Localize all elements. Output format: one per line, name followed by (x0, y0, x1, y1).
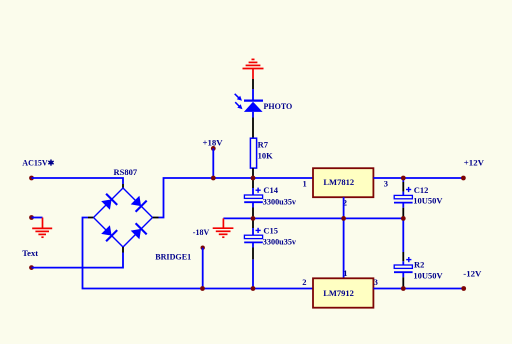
wire (+18V rail to LM7812 pin1) (159, 178, 314, 218)
junction (R2 on -rail) (401, 286, 406, 291)
pin (R2 bottom) (402, 277, 404, 288)
junction (C14/C15 on gnd rail) (251, 216, 256, 221)
svg-text:Text: Text (22, 248, 38, 258)
junction (reg interconnect on gnd rail) (341, 216, 346, 221)
diode D3 (left-bottom) (101, 225, 117, 241)
svg-text:C15: C15 (263, 225, 278, 235)
svg-text:LM7912: LM7912 (323, 288, 354, 298)
svg-text:BRIDGE1: BRIDGE1 (155, 252, 191, 261)
svg-text:R2: R2 (414, 259, 424, 269)
ground rail (middle) (223, 217, 403, 219)
ground (left, red) (32, 218, 52, 238)
pin (C12 bottom) (402, 208, 404, 219)
svg-text:10U50V: 10U50V (413, 195, 443, 205)
wire (C12 to R2) (402, 218, 404, 252)
wire (LM7912 pin3 to -12V) (373, 288, 463, 290)
svg-text:3: 3 (384, 178, 388, 188)
capacitor R2 10U50V (394, 257, 444, 280)
pin (C15 bottom) (252, 248, 254, 260)
svg-text:10U50V: 10U50V (413, 270, 443, 280)
svg-text:-12V: -12V (463, 269, 482, 279)
pin (bridge top) (122, 184, 124, 189)
pin (bridge right) (153, 217, 159, 219)
power symbol (red earth, pointing up) (243, 59, 264, 79)
wire (LM7812 pin2 down to LM7912 pin1) (343, 197, 345, 278)
svg-text:R7: R7 (258, 139, 269, 149)
svg-text:3: 3 (374, 277, 378, 287)
pin (R2 top) (402, 252, 404, 261)
port -12V (461, 286, 466, 291)
capacitor C12 10U50V (394, 185, 443, 208)
pin (C14 top) (252, 178, 254, 188)
junction (C12 on +rail) (401, 176, 406, 181)
svg-text:+12V: +12V (464, 158, 485, 168)
junction (R7/C14 on +rail) (251, 176, 256, 181)
wire (LM7812 pin3 to +12V) (373, 177, 463, 179)
pin (C14 bottom) (252, 208, 254, 219)
resistor R7 10K (250, 138, 273, 168)
svg-text:LM7812: LM7812 (323, 177, 354, 187)
junction (C12/R2 on gnd rail) (401, 216, 406, 221)
wire (252, 89, 254, 100)
pin (bridge bottom) (122, 247, 124, 253)
svg-text:1: 1 (343, 268, 347, 278)
wire (C12 top stub) (402, 178, 404, 182)
photodiode PHOTO (235, 94, 293, 112)
diode D4 (bottom-right) (131, 223, 147, 239)
pin (R7 bottom) (252, 168, 254, 178)
port Text (29, 265, 34, 270)
wire (Text to bridge bottom) (32, 253, 124, 268)
capacitor C14 3300u35v (244, 185, 297, 208)
pin (C15 top) (252, 218, 254, 228)
diode D1 (left-top) (101, 194, 117, 210)
wire AC input (32, 178, 124, 184)
port -18V (201, 246, 205, 250)
pin (C12 top) (402, 182, 404, 192)
svg-text:PHOTO: PHOTO (264, 102, 293, 111)
wire (+18V drop) (212, 148, 214, 178)
junction (-18V on -rail) (200, 286, 205, 291)
wire (-18V run: bridge left to LM7912 pin2) (83, 218, 314, 289)
capacitor C15 3300u35v (244, 225, 297, 247)
wire (to left ground) (32, 217, 43, 219)
wire (C15 to -rail) (252, 259, 254, 288)
junction (C15 on -rail) (251, 286, 256, 291)
svg-text:RS807: RS807 (114, 167, 138, 177)
pin (R7 top) (252, 118, 254, 139)
svg-text:2: 2 (302, 277, 306, 287)
port AC15V (29, 176, 34, 181)
svg-text:1: 1 (303, 178, 307, 188)
svg-text:3300u35v: 3300u35v (263, 237, 297, 246)
port (left ground) (29, 215, 34, 220)
svg-text:AC15V✱: AC15V✱ (22, 159, 54, 168)
svg-text:C14: C14 (263, 185, 278, 195)
port +18V (211, 146, 216, 151)
svg-text:C12: C12 (414, 185, 429, 195)
wire (-18V drop) (202, 248, 204, 289)
op-amp U2 LM7812 (313, 168, 373, 197)
pin (bridge left) (88, 217, 93, 219)
pin (photodiode cathode pin) (252, 79, 254, 89)
svg-text:3300u35v: 3300u35v (263, 198, 297, 207)
svg-text:-18V: -18V (193, 228, 210, 237)
wire (252, 112, 254, 118)
ground (middle, red) (213, 218, 234, 237)
junction (+18V on +rail) (211, 176, 216, 181)
port +12V (461, 176, 466, 181)
svg-text:10K: 10K (258, 150, 274, 160)
bridge diamond (94, 188, 153, 247)
diode D2 (top-right) (131, 196, 147, 212)
op-amp U3 LM7912 (313, 278, 373, 307)
